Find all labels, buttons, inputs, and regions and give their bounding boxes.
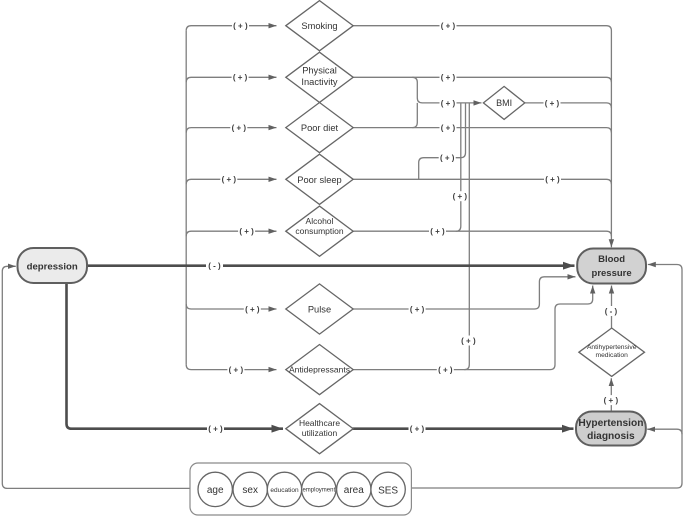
label (+) Pulse->Blood pressure <box>409 304 426 314</box>
svg-text:( - ): ( - ) <box>605 307 618 316</box>
wire bus depression to behaviors (vertical) <box>185 31 187 365</box>
wire depression->Healthcare utilization (thick) <box>67 283 284 429</box>
svg-text:education: education <box>270 487 299 494</box>
svg-text:Healthcare: Healthcare <box>299 418 340 428</box>
wire Hypertension diagnosis->Antihypertensive medication <box>610 378 612 411</box>
wire depression->Poor diet <box>186 128 276 133</box>
wire depression->Antidepressants <box>186 365 276 370</box>
svg-text:( + ): ( + ) <box>441 22 456 31</box>
wire depression->Alcohol consumption <box>186 231 276 236</box>
node age (circle) <box>198 472 232 506</box>
wire Alcohol consumption->BMI branch <box>456 103 461 231</box>
node area (circle) <box>337 472 371 506</box>
node Poor sleep (diamond) <box>286 154 353 204</box>
node Alcohol consumption (diamond) <box>286 206 353 256</box>
node Smoking (diamond) <box>286 1 353 51</box>
wire Poor diet->BMI <box>412 103 417 128</box>
wire depression->Pulse <box>186 304 276 309</box>
svg-text:( + ): ( + ) <box>410 425 425 434</box>
svg-text:Blood: Blood <box>598 254 625 265</box>
svg-text:Hypertension: Hypertension <box>578 418 643 429</box>
svg-text:SES: SES <box>378 485 398 496</box>
svg-text:Physical: Physical <box>302 65 337 75</box>
wire confounders->Hypertension diagnosis branch <box>647 429 682 434</box>
svg-text:( + ): ( + ) <box>604 396 619 405</box>
svg-text:( + ): ( + ) <box>545 175 560 184</box>
svg-text:( + ): ( + ) <box>239 227 254 236</box>
label (+) depression->Smoking <box>232 21 249 31</box>
wire Antidepressants->Blood pressure <box>352 286 593 370</box>
label (+) Hypertension->Antihypertensive <box>602 395 619 405</box>
wire depression->Blood pressure (thick) <box>87 264 575 267</box>
node Hypertension diagnosis <box>576 412 646 446</box>
svg-text:sex: sex <box>242 485 258 496</box>
label (+) behaviors->BMI <box>440 98 457 108</box>
svg-text:( + ): ( + ) <box>441 73 456 82</box>
wire Smoking->Blood pressure (top trunk) <box>353 26 611 248</box>
label (+) Poor sleep->BMI <box>439 153 456 163</box>
node Pulse (diamond) <box>286 284 353 334</box>
label (+) depression->Pulse <box>244 304 261 314</box>
svg-text:( + ): ( + ) <box>208 425 223 434</box>
wire depression->Physical Inactivity <box>186 77 276 82</box>
svg-text:Inactivity: Inactivity <box>301 77 338 87</box>
label (+) depression->Poor diet <box>230 123 247 133</box>
wire Poor sleep->BMI branch <box>419 103 466 179</box>
wire depression->Poor sleep <box>186 179 276 184</box>
label (+) Physical Inactivity->Blood pressure <box>440 72 457 82</box>
svg-text:( + ): ( + ) <box>461 336 476 345</box>
label (+) Antidepressants->BMI (vertical) <box>460 336 477 346</box>
node BMI (diamond) <box>483 86 524 119</box>
node SES (circle) <box>371 472 405 506</box>
svg-text:utilization: utilization <box>302 428 338 438</box>
svg-text:( + ): ( + ) <box>453 192 468 201</box>
svg-text:( + ): ( + ) <box>232 124 247 133</box>
wire Alcohol consumption->Blood pressure <box>353 231 611 236</box>
label (+) depression->Physical Inactivity <box>232 72 249 82</box>
node Healthcare utilization (diamond) <box>286 404 353 454</box>
svg-text:BMI: BMI <box>496 98 512 108</box>
svg-text:( + ): ( + ) <box>430 227 445 236</box>
label (-) Antihypertensive->Blood pressure <box>603 306 620 316</box>
svg-text:( - ): ( - ) <box>208 262 221 271</box>
label (+) depression->Alcohol consumption <box>238 226 255 236</box>
wire BMI->Blood pressure <box>525 103 612 108</box>
svg-text:depression: depression <box>27 262 78 273</box>
wire Physical Inactivity->Blood pressure <box>353 77 611 82</box>
label (+) Alcohol->BMI (vertical) <box>451 191 468 201</box>
svg-text:pressure: pressure <box>592 268 632 279</box>
wire Antihypertensive medication->Blood pressure <box>611 286 613 328</box>
label (+) Poor diet->Blood pressure <box>440 123 457 133</box>
svg-text:( + ): ( + ) <box>441 99 456 108</box>
label (+) Antidepressants->Blood pressure <box>437 365 454 375</box>
svg-text:Smoking: Smoking <box>301 21 337 31</box>
svg-text:medication: medication <box>596 352 629 359</box>
svg-text:( + ): ( + ) <box>438 366 453 375</box>
label (+) Poor sleep->Blood pressure <box>544 174 561 184</box>
node Blood pressure <box>577 249 646 284</box>
svg-text:age: age <box>207 485 224 496</box>
node education (circle) <box>267 472 301 506</box>
svg-text:( + ): ( + ) <box>441 124 456 133</box>
wire confounders->Blood pressure loop (right) <box>411 265 682 489</box>
wire confounders->depression loop <box>2 266 190 488</box>
svg-text:Poor diet: Poor diet <box>301 123 339 133</box>
node Antihypertensive medication (diamond) <box>579 328 645 376</box>
wire Antidepressants->BMI branch <box>464 103 469 370</box>
svg-text:consumption: consumption <box>295 226 343 236</box>
label (+) BMI->Blood pressure <box>544 98 561 108</box>
label (+) depression->Poor sleep <box>220 174 237 184</box>
node depression <box>18 248 88 283</box>
wire depression->Smoking <box>186 26 276 31</box>
label (+) depression->Antidepressants <box>227 365 244 375</box>
label (+) Smoking->Blood pressure <box>440 21 457 31</box>
wire Poor sleep->Blood pressure <box>353 179 611 184</box>
svg-text:( + ): ( + ) <box>440 154 455 163</box>
svg-text:Poor sleep: Poor sleep <box>297 175 341 185</box>
node Physical Inactivity (diamond) <box>286 52 353 102</box>
wire Healthcare utilization->Hypertension diagnosis (thick) <box>352 427 573 430</box>
wire Physical Inactivity->BMI <box>412 77 481 103</box>
svg-text:Pulse: Pulse <box>308 305 331 315</box>
label (+) Healthcare->Hypertension diagnosis <box>409 424 426 434</box>
svg-text:( + ): ( + ) <box>233 22 248 31</box>
svg-text:area: area <box>344 485 364 496</box>
svg-text:( + ): ( + ) <box>545 99 560 108</box>
label (-) depression->Blood pressure <box>206 261 223 271</box>
svg-text:( + ): ( + ) <box>229 366 244 375</box>
svg-text:Antidepressants: Antidepressants <box>289 365 350 375</box>
wire Poor diet->Blood pressure <box>353 128 611 133</box>
svg-text:( + ): ( + ) <box>410 305 425 314</box>
node confounders box <box>190 463 411 515</box>
svg-text:diagnosis: diagnosis <box>587 431 635 442</box>
node Poor diet (diamond) <box>286 103 353 153</box>
label (+) depression->Healthcare utilization <box>207 424 224 434</box>
svg-text:( + ): ( + ) <box>222 175 237 184</box>
node Antidepressants (diamond) <box>286 345 353 395</box>
svg-text:( + ): ( + ) <box>233 73 248 82</box>
svg-text:( + ): ( + ) <box>245 305 260 314</box>
wire Pulse->Blood pressure <box>353 277 576 309</box>
svg-text:Alcohol: Alcohol <box>306 216 334 226</box>
svg-text:employment: employment <box>302 488 335 494</box>
node employment (circle) <box>302 472 336 506</box>
node sex (circle) <box>233 472 267 506</box>
label (+) Alcohol->Blood pressure <box>429 226 446 236</box>
svg-text:Antihypertensive: Antihypertensive <box>587 344 637 351</box>
